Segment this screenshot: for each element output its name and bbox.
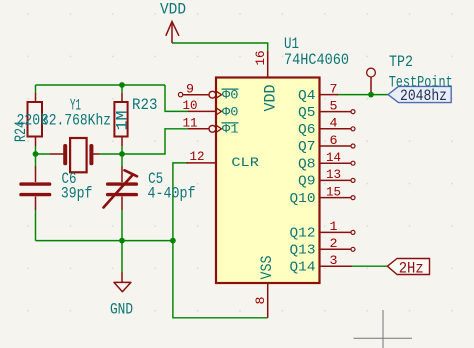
svg-text:VDD: VDD bbox=[160, 1, 186, 19]
svg-text:Φ1: Φ1 bbox=[222, 122, 239, 137]
svg-text:7: 7 bbox=[330, 81, 338, 96]
svg-text:1M: 1M bbox=[113, 111, 131, 131]
svg-text:16: 16 bbox=[253, 50, 268, 65]
svg-text:Q10: Q10 bbox=[290, 191, 316, 207]
svg-text:3: 3 bbox=[330, 253, 338, 268]
svg-text:Φ0: Φ0 bbox=[222, 88, 239, 103]
svg-text:Q9: Q9 bbox=[298, 174, 316, 190]
svg-text:Q14: Q14 bbox=[290, 259, 316, 275]
svg-text:R24: R24 bbox=[12, 121, 30, 142]
svg-text:R23: R23 bbox=[132, 96, 158, 114]
svg-text:Q8: Q8 bbox=[298, 156, 316, 172]
svg-text:Q4: Q4 bbox=[298, 88, 316, 104]
svg-text:10: 10 bbox=[183, 98, 198, 113]
svg-text:Q6: Q6 bbox=[298, 122, 316, 138]
svg-text:39pf: 39pf bbox=[61, 185, 93, 203]
svg-text:Q5: Q5 bbox=[298, 105, 316, 121]
svg-text:13: 13 bbox=[326, 167, 341, 182]
svg-text:VDD: VDD bbox=[262, 85, 280, 112]
svg-text:2048hz: 2048hz bbox=[400, 87, 447, 105]
svg-text:1: 1 bbox=[330, 219, 338, 234]
svg-text:12: 12 bbox=[190, 149, 205, 164]
svg-text:32.768Khz: 32.768Khz bbox=[41, 112, 111, 130]
svg-text:TP2: TP2 bbox=[389, 53, 413, 71]
svg-text:Q7: Q7 bbox=[298, 139, 316, 155]
svg-text:4: 4 bbox=[330, 116, 338, 131]
svg-text:15: 15 bbox=[326, 184, 341, 199]
svg-text:Q12: Q12 bbox=[290, 226, 316, 242]
svg-text:9: 9 bbox=[186, 82, 194, 97]
svg-text:11: 11 bbox=[183, 116, 198, 131]
svg-text:2: 2 bbox=[330, 236, 338, 251]
svg-text:74HC4060: 74HC4060 bbox=[284, 51, 349, 69]
svg-text:Φ0: Φ0 bbox=[222, 104, 239, 119]
svg-text:6: 6 bbox=[330, 133, 338, 148]
svg-text:CLR: CLR bbox=[231, 155, 259, 170]
svg-text:8: 8 bbox=[253, 296, 268, 304]
svg-text:4-40pf: 4-40pf bbox=[148, 185, 196, 203]
svg-text:2Hz: 2Hz bbox=[399, 260, 424, 278]
svg-text:VSS: VSS bbox=[258, 256, 276, 280]
svg-text:5: 5 bbox=[330, 98, 338, 113]
svg-text:14: 14 bbox=[326, 150, 341, 165]
svg-text:Q13: Q13 bbox=[290, 243, 316, 259]
svg-text:GND: GND bbox=[110, 301, 133, 319]
